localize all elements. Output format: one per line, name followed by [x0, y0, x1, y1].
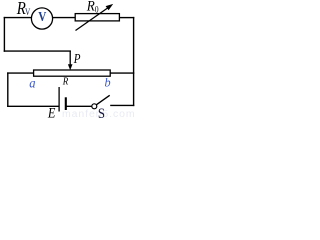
switch S contact circle — [92, 104, 97, 109]
wire left-lower vertical — [7, 72, 9, 107]
resistor R0 box — [75, 14, 119, 21]
wire top between voltmeter and R0 — [53, 17, 76, 19]
voltmeter U1 circle — [31, 8, 52, 29]
wire potentiometer left lead — [7, 72, 33, 74]
svg-text:V: V — [25, 7, 30, 17]
switch S lever — [96, 95, 109, 105]
svg-text:R: R — [86, 0, 95, 15]
svg-text:V: V — [38, 9, 46, 24]
rheostat arrow through R0 — [76, 6, 111, 30]
battery E long plate — [58, 87, 60, 112]
svg-text:S: S — [98, 105, 105, 119]
wire left-upper vertical — [3, 17, 5, 52]
wire battery to bottom-left — [7, 105, 59, 107]
svg-text:a: a — [29, 75, 36, 91]
wire bottom-right horizontal — [110, 104, 134, 106]
svg-text:P: P — [73, 51, 81, 66]
svg-text:R: R — [62, 76, 68, 88]
wire right vertical — [133, 17, 135, 106]
svg-text:0: 0 — [95, 4, 99, 15]
wire top-left horizontal — [4, 17, 32, 19]
slider arrow P — [69, 51, 71, 66]
wire switch to battery — [66, 105, 92, 107]
wire potentiometer right lead — [110, 72, 134, 74]
wire slider branch horizontal — [4, 50, 71, 52]
wire top-right horizontal — [119, 17, 134, 19]
potentiometer R box — [34, 70, 111, 76]
battery E short plate — [65, 97, 67, 110]
svg-text:E: E — [47, 104, 56, 119]
svg-text:b: b — [105, 76, 111, 90]
